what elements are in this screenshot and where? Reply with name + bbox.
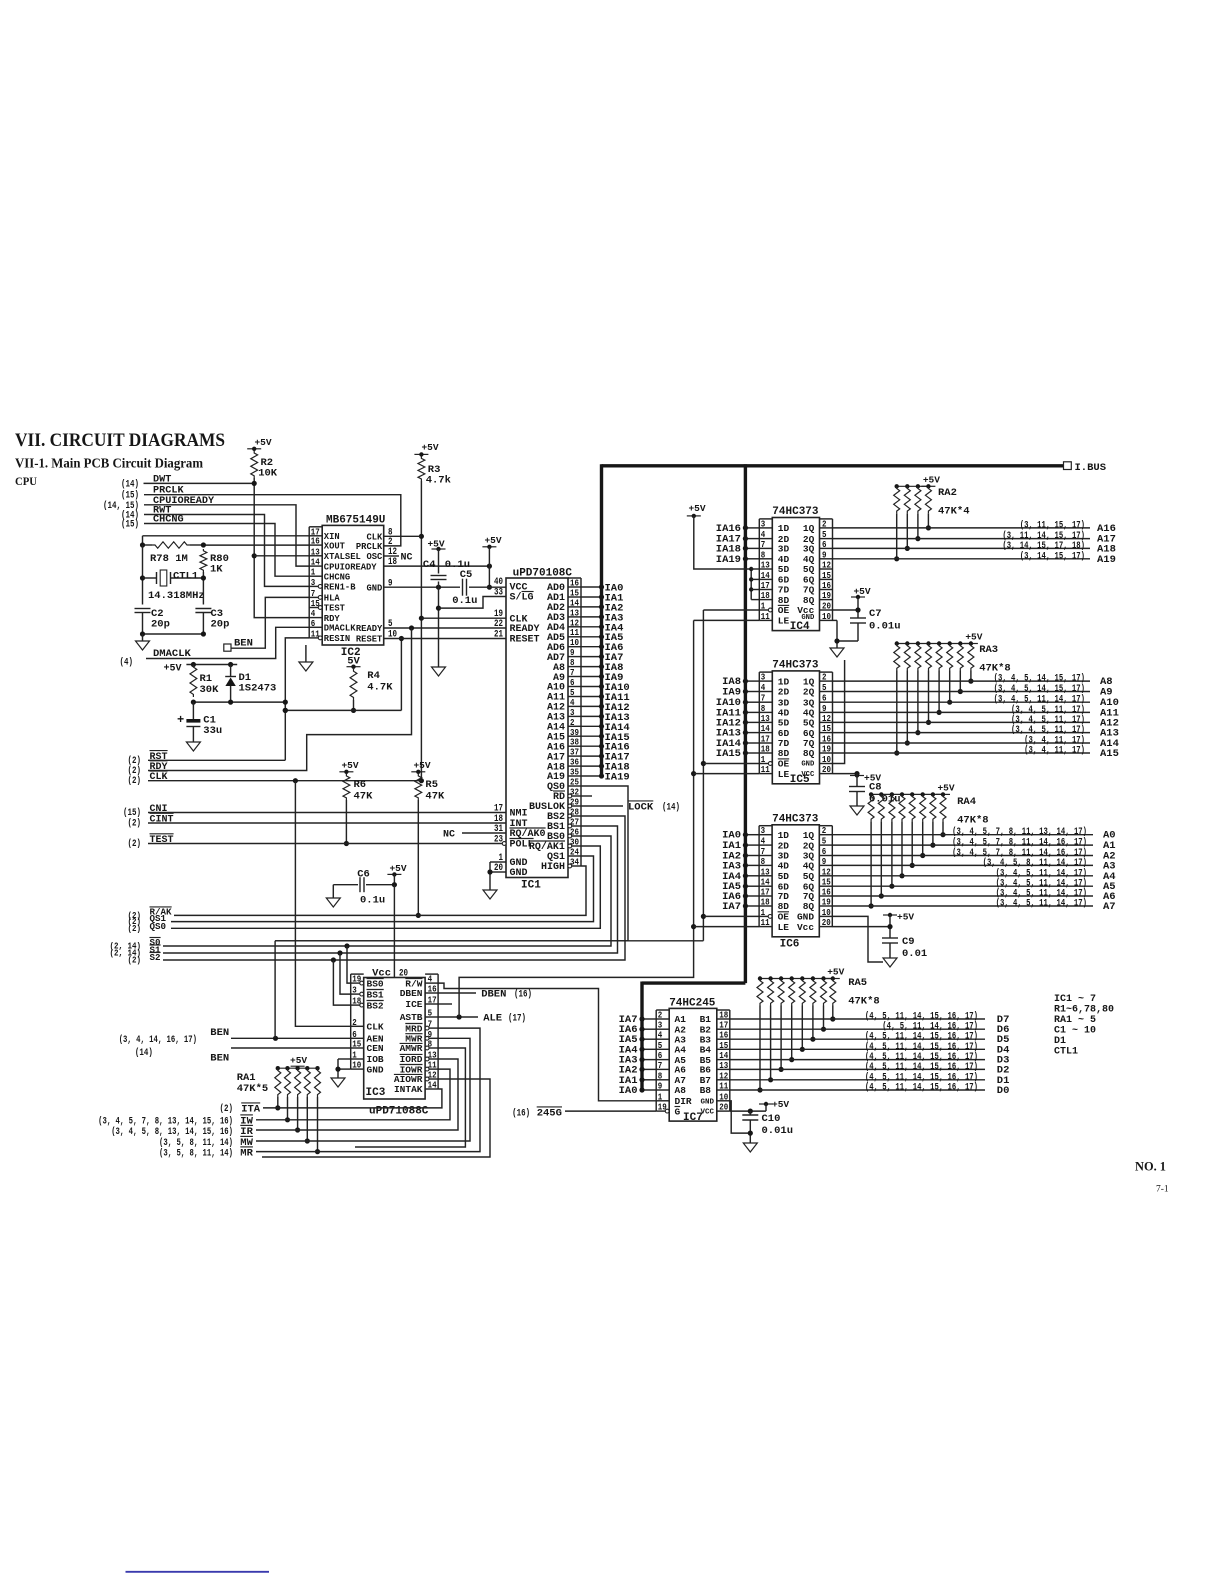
svg-text:20p: 20p <box>211 619 230 631</box>
wire IC3 R/W to IC7 DIR <box>438 983 656 1101</box>
svg-text:+5V: +5V <box>688 503 705 514</box>
resistor R5 47K <box>415 774 445 803</box>
wire S1 branch to IC3 BS1 <box>337 950 350 994</box>
svg-text:13: 13 <box>719 1060 728 1071</box>
svg-text:3: 3 <box>761 672 766 683</box>
svg-text:HLA: HLA <box>324 594 341 604</box>
svg-text:17: 17 <box>494 804 503 815</box>
svg-text:21: 21 <box>494 630 503 641</box>
svg-text:2Q: 2Q <box>803 840 815 851</box>
CPU IC1 uPD70108C <box>494 568 581 892</box>
wire IW to IC3 IOWR <box>256 1069 450 1120</box>
svg-text:5: 5 <box>822 836 827 847</box>
svg-text:(3, 5, 8, 11, 14): (3, 5, 8, 11, 14) <box>159 1148 233 1160</box>
svg-text:(14): (14) <box>121 478 139 490</box>
resistor network RA2 47K*4 <box>894 474 970 561</box>
capacitor C10 0.01u <box>730 1099 793 1143</box>
wire IC2 pin12 OSC NC <box>384 553 413 564</box>
svg-text:INTAK: INTAK <box>394 1084 423 1095</box>
svg-text:XOUT: XOUT <box>324 541 346 551</box>
wire IC3 ASTB to ALE and latch LE chain <box>438 927 693 1025</box>
svg-text:C7: C7 <box>869 608 882 620</box>
svg-text:74HC373: 74HC373 <box>772 659 819 671</box>
svg-text:+5V: +5V <box>923 474 940 485</box>
svg-text:C10: C10 <box>762 1113 781 1125</box>
svg-text:6D: 6D <box>778 728 790 739</box>
svg-text:6: 6 <box>311 618 316 629</box>
wire MW to IC3 MWR <box>256 1038 470 1141</box>
svg-text:(17): (17) <box>508 1013 526 1025</box>
ground C10 <box>743 1143 757 1152</box>
wire IC4 5D-8D tie <box>749 567 759 600</box>
svg-text:23: 23 <box>494 835 503 846</box>
svg-text:1D: 1D <box>778 523 790 534</box>
resistor R2 10K <box>251 451 278 480</box>
svg-text:18: 18 <box>761 897 770 908</box>
power +5V for R5 <box>411 771 425 773</box>
svg-text:GND: GND <box>510 868 528 879</box>
svg-text:GND: GND <box>801 761 815 769</box>
svg-text:TEST: TEST <box>324 604 346 614</box>
svg-text:8D: 8D <box>778 748 790 759</box>
wire IR to IC3 IORD <box>256 1059 458 1130</box>
svg-text:3Q: 3Q <box>803 544 815 555</box>
svg-text:READY: READY <box>356 624 383 634</box>
svg-text:0.01u: 0.01u <box>762 1125 794 1137</box>
ground C8 <box>850 806 864 815</box>
wires CPU AD/A pins to bus with IA labels <box>581 583 630 784</box>
svg-text:19: 19 <box>822 744 831 755</box>
wires IC5 outputs A8-A15 <box>832 673 1119 760</box>
svg-text:(2): (2) <box>128 923 142 934</box>
IC3 uPD71088C bus controller <box>351 974 438 1118</box>
svg-text:47K*5: 47K*5 <box>237 1083 269 1095</box>
svg-text:3D: 3D <box>778 544 790 555</box>
wire latch OE chain riser <box>274 941 276 1039</box>
svg-text:A6: A6 <box>675 1065 687 1076</box>
svg-text:2: 2 <box>822 518 827 529</box>
svg-text:IA19: IA19 <box>605 772 630 784</box>
capacitor C6 0.1u <box>333 869 394 907</box>
svg-text:CLK: CLK <box>150 772 168 783</box>
svg-text:4.7k: 4.7k <box>426 475 451 487</box>
wire S2 branch to IC3 BS2 <box>331 957 351 1005</box>
svg-text:IC1: IC1 <box>521 880 541 892</box>
svg-text:A7: A7 <box>1103 901 1116 913</box>
power +5V at C6 <box>387 863 406 887</box>
node ITA label <box>220 1103 261 1116</box>
svg-text:5: 5 <box>428 1008 433 1019</box>
svg-text:12: 12 <box>822 560 831 571</box>
resistor network RA3 47K*8 <box>894 632 1011 756</box>
resistor R4 4.7K <box>350 669 393 700</box>
svg-text:11: 11 <box>719 1081 728 1092</box>
svg-text:C9: C9 <box>902 936 915 948</box>
wire R5 to R/AK row <box>416 800 421 918</box>
wire R4 to reset row <box>285 636 404 713</box>
svg-text:IC1 ~ 7: IC1 ~ 7 <box>1054 994 1096 1005</box>
svg-text:CLK: CLK <box>367 1022 384 1033</box>
svg-text:(4): (4) <box>120 657 134 669</box>
svg-text:9: 9 <box>822 856 827 867</box>
svg-text:15: 15 <box>822 723 831 734</box>
svg-text:LE: LE <box>778 616 790 627</box>
svg-text:A8: A8 <box>675 1085 687 1096</box>
svg-text:RDY: RDY <box>324 614 341 624</box>
svg-text:15: 15 <box>352 1039 361 1050</box>
svg-text:+5V: +5V <box>413 760 430 771</box>
wire crystal left leg <box>140 545 145 605</box>
svg-text:(3, 4, 5, 8, 13, 14, 15, 16): (3, 4, 5, 8, 13, 14, 15, 16) <box>111 1126 233 1138</box>
svg-text:CPU: CPU <box>15 474 37 488</box>
svg-text:LOCK: LOCK <box>628 802 654 814</box>
svg-text:5D: 5D <box>778 564 790 575</box>
svg-text:1Q: 1Q <box>803 676 815 687</box>
svg-text:XTALSEL: XTALSEL <box>324 552 361 562</box>
svg-text:REN1-B: REN1-B <box>324 583 356 593</box>
wire ITA to IC3 INTAK <box>263 1089 442 1108</box>
power +5V for R2 <box>247 448 261 450</box>
svg-text:74HC373: 74HC373 <box>772 506 819 518</box>
capacitor C9 0.01 <box>832 912 927 961</box>
node MW label <box>159 1136 254 1149</box>
power +5V feed IC4 unused inputs <box>687 503 751 569</box>
wire RD stub <box>581 795 592 797</box>
svg-text:4Q: 4Q <box>803 861 815 872</box>
node DMACLK label <box>120 648 192 669</box>
wire IC2 pin18 to +5V rail <box>384 564 492 569</box>
power 5V for R4 <box>347 656 361 669</box>
svg-text:C4: C4 <box>423 559 436 571</box>
svg-text:BS2: BS2 <box>367 1000 384 1011</box>
svg-text:VCC: VCC <box>700 1109 714 1117</box>
svg-text:(16): (16) <box>514 989 532 1001</box>
ground CPU <box>483 890 497 899</box>
svg-text:7: 7 <box>761 539 766 550</box>
svg-text:VII-1. Main PCB Circuit Diagr: VII-1. Main PCB Circuit Diagram <box>15 457 203 472</box>
node BEN label row <box>119 1027 230 1046</box>
svg-text:1Q: 1Q <box>803 830 815 841</box>
wire IC3 DBEN label <box>438 989 532 1001</box>
wire DWT row <box>144 482 255 484</box>
svg-text:(3, 4, 5, 7, 8, 11, 13, 14, 17: (3, 4, 5, 7, 8, 11, 13, 14, 17) <box>952 826 1087 838</box>
bus elbow to IC7 <box>642 981 745 984</box>
svg-text:3: 3 <box>311 577 316 588</box>
svg-text:DMACLK: DMACLK <box>324 624 356 634</box>
svg-text:47K: 47K <box>425 791 445 803</box>
svg-text:(15): (15) <box>123 807 141 819</box>
svg-text:CINT: CINT <box>150 815 174 826</box>
svg-text:(2): (2) <box>220 1103 234 1115</box>
wire BS1 to S1 row <box>163 826 618 953</box>
svg-text:G: G <box>675 1106 681 1117</box>
svg-text:5Q: 5Q <box>803 564 815 575</box>
svg-text:(3, 4, 5, 7, 8, 11, 14, 16, 17: (3, 4, 5, 7, 8, 11, 14, 16, 17) <box>952 837 1087 849</box>
resistor R80 1K <box>200 549 229 576</box>
ground C9 <box>883 958 897 967</box>
svg-text:BEN: BEN <box>210 1027 229 1039</box>
svg-text:LE: LE <box>778 769 790 780</box>
svg-text:(2): (2) <box>128 765 142 777</box>
svg-text:6Q: 6Q <box>803 728 815 739</box>
svg-text:1S2473: 1S2473 <box>239 683 277 695</box>
wire IC2 RESET to CPU RESET <box>384 638 506 640</box>
svg-text:(4, 5, 11, 14, 15, 16, 17): (4, 5, 11, 14, 15, 16, 17) <box>865 1041 978 1053</box>
svg-text:(3, 4, 5, 14, 15, 17): (3, 4, 5, 14, 15, 17) <box>994 673 1085 685</box>
diode D1 1S2473 <box>225 665 276 703</box>
capacitor C1 33u electrolytic <box>177 702 222 742</box>
svg-text:7-1: 7-1 <box>1156 1185 1169 1195</box>
wire IC4 GND pin <box>832 620 839 648</box>
svg-text:+5V: +5V <box>421 442 438 453</box>
svg-text:VII. CIRCUIT DIAGRAMS: VII. CIRCUIT DIAGRAMS <box>15 430 225 451</box>
svg-text:8Q: 8Q <box>803 748 815 759</box>
svg-text:20: 20 <box>822 917 831 928</box>
svg-text:47K*4: 47K*4 <box>938 506 970 518</box>
bus vertical to IC7 <box>640 982 643 1091</box>
svg-text:0.01u: 0.01u <box>869 621 901 633</box>
svg-text:NO. 1: NO. 1 <box>1135 1159 1166 1174</box>
svg-text:S2: S2 <box>150 952 161 963</box>
bus I.BUS top <box>602 462 1107 474</box>
wire READY staircase to RDY label <box>148 628 412 771</box>
wire 245G to IC7 G <box>565 1110 656 1112</box>
svg-text:+: + <box>177 713 184 727</box>
svg-text:19: 19 <box>822 590 831 601</box>
svg-text:(3, 4, 11, 17): (3, 4, 11, 17) <box>1024 745 1085 757</box>
svg-text:31: 31 <box>494 824 503 835</box>
svg-text:18: 18 <box>761 744 770 755</box>
svg-text:(3, 4, 14, 16, 17): (3, 4, 14, 16, 17) <box>119 1034 197 1046</box>
node DWT input label <box>121 474 171 490</box>
svg-text:2: 2 <box>352 1017 357 1028</box>
capacitor C5 0.1u <box>452 569 477 607</box>
svg-text:20: 20 <box>719 1102 728 1113</box>
svg-text:10: 10 <box>352 1060 361 1071</box>
svg-text:B6: B6 <box>700 1065 712 1076</box>
svg-text:HIGH: HIGH <box>541 862 565 873</box>
svg-text:RA3: RA3 <box>979 644 998 656</box>
svg-text:IA15: IA15 <box>716 748 741 760</box>
svg-text:+5V: +5V <box>484 535 501 546</box>
node NC at RQ/AK0 <box>443 830 506 841</box>
svg-text:6: 6 <box>822 539 827 550</box>
svg-text:LG: LG <box>522 593 534 604</box>
svg-text:74HC373: 74HC373 <box>772 813 819 825</box>
wire BEN to IC3 AEN <box>231 1036 351 1041</box>
svg-text:R6: R6 <box>354 779 367 791</box>
svg-text:BS1: BS1 <box>367 989 384 1000</box>
svg-text:14: 14 <box>761 723 770 734</box>
svg-text:(4, 5, 11, 14, 15, 16, 17): (4, 5, 11, 14, 15, 16, 17) <box>865 1011 978 1023</box>
svg-text:10: 10 <box>822 611 831 622</box>
svg-text:ALE: ALE <box>483 1013 502 1025</box>
svg-text:(16): (16) <box>512 1108 530 1120</box>
node BEN-bar label row <box>135 1047 229 1065</box>
wire RST to RESIN net <box>148 638 309 760</box>
IC4 74HC373 latch <box>759 506 832 633</box>
svg-text:5Q: 5Q <box>803 871 815 882</box>
svg-text:CTL1: CTL1 <box>173 571 198 583</box>
wire CHCNG row to IC2 pin1 <box>144 524 309 577</box>
svg-text:R4: R4 <box>367 670 380 682</box>
wires IC7 outputs D7-D0 <box>730 1011 1010 1098</box>
wire BS2 to S2 row <box>163 816 625 960</box>
resistor R6 47K <box>343 774 373 803</box>
wire IC3 IOB GND tie <box>335 1059 350 1078</box>
svg-text:11: 11 <box>761 611 770 622</box>
svg-text:8Q: 8Q <box>803 901 815 912</box>
svg-text:RA2: RA2 <box>938 487 957 499</box>
footer rule <box>126 1571 270 1573</box>
wire IC2 GND9 row with C5 <box>384 585 506 590</box>
svg-text:IA7: IA7 <box>722 901 741 913</box>
resistor R1 30K <box>190 665 219 698</box>
svg-text:+5V: +5V <box>427 539 444 550</box>
svg-text:16: 16 <box>311 536 320 547</box>
svg-text:16: 16 <box>428 984 437 995</box>
wire QS1 pin to QS1 row <box>171 856 594 922</box>
wire XIN row <box>143 536 310 545</box>
svg-text:CEN: CEN <box>367 1043 384 1054</box>
ground IC4 <box>830 648 844 657</box>
wire IC2 READY to CPU READY <box>384 625 506 630</box>
wire CLK branch to IC3 CLK pin <box>295 781 350 1027</box>
wire +5V to IC3 Vcc pin20 <box>372 885 408 980</box>
wire LOCK from BUSLOK <box>581 801 680 814</box>
IC2 MB675149U clock generator <box>309 515 397 660</box>
svg-text:RESET: RESET <box>510 635 540 646</box>
svg-text:ITA: ITA <box>241 1104 261 1116</box>
svg-text:(3, 14, 15, 17, 18): (3, 14, 15, 17, 18) <box>1002 540 1085 552</box>
resistor R78 1M <box>140 542 206 565</box>
svg-text:RA1 ~ 5: RA1 ~ 5 <box>1054 1015 1096 1026</box>
wires IA inputs to IC7 <box>619 1014 657 1097</box>
svg-text:8Q: 8Q <box>803 595 815 606</box>
svg-text:0.01: 0.01 <box>902 948 927 960</box>
node CPUIOREADY input label <box>103 496 215 512</box>
svg-text:(3, 5, 8, 11, 14): (3, 5, 8, 11, 14) <box>159 1137 233 1149</box>
capacitor C7 0.01u <box>832 586 900 641</box>
svg-text:DBEN: DBEN <box>400 988 423 999</box>
svg-text:IC3: IC3 <box>366 1087 386 1099</box>
wire IC2 CLK8 to CLK net <box>384 535 422 537</box>
svg-text:(3, 4, 5, 7, 8, 13, 14, 15, 16: (3, 4, 5, 7, 8, 13, 14, 15, 16) <box>98 1116 233 1128</box>
wire MR to IC3 MRD <box>256 1028 480 1152</box>
svg-text:11: 11 <box>761 917 770 928</box>
wire CPU S/LG tie <box>439 597 507 609</box>
svg-text:30K: 30K <box>200 684 220 696</box>
wires IC4 outputs A16-A19 <box>832 519 1116 565</box>
svg-text:R5: R5 <box>425 779 438 791</box>
svg-text:AMWR: AMWR <box>400 1043 423 1054</box>
svg-text:(2): (2) <box>128 818 142 830</box>
svg-text:LE: LE <box>778 922 790 933</box>
svg-text:D0: D0 <box>997 1085 1010 1097</box>
wire latch LE chain <box>691 620 759 929</box>
svg-text:2Q: 2Q <box>803 687 815 698</box>
svg-text:(3, 4, 5, 11, 14, 17): (3, 4, 5, 11, 14, 17) <box>996 867 1087 879</box>
wire IC3 ICE stub <box>438 1003 452 1005</box>
page titles <box>15 430 225 488</box>
wire IC3 AIOWR stub <box>262 1079 490 1157</box>
svg-text:RESET: RESET <box>356 635 383 645</box>
svg-text:2: 2 <box>822 672 827 683</box>
wire CPU VCC +5V <box>482 535 501 590</box>
svg-text:NC: NC <box>401 553 413 564</box>
svg-text:1D: 1D <box>778 830 790 841</box>
svg-text:+5V: +5V <box>897 912 914 923</box>
wire latch OE chain <box>701 610 759 941</box>
svg-text:+5V: +5V <box>341 760 358 771</box>
svg-text:IC4: IC4 <box>790 621 810 633</box>
svg-text:4: 4 <box>761 836 766 847</box>
svg-text:11: 11 <box>761 764 770 775</box>
IC6 74HC373 latch <box>759 813 832 950</box>
svg-text:(15): (15) <box>121 519 139 531</box>
svg-text:MR: MR <box>240 1148 253 1160</box>
svg-text:CLK: CLK <box>366 533 383 543</box>
wire RWT row to IC2 pin3 <box>144 515 309 587</box>
wire R6 to POLL row <box>344 800 349 846</box>
svg-text:0.1u: 0.1u <box>360 895 385 907</box>
svg-text:TEST: TEST <box>150 835 174 846</box>
svg-text:(2): (2) <box>128 775 142 787</box>
svg-text:(2): (2) <box>128 955 142 966</box>
svg-text:IA0: IA0 <box>619 1085 638 1097</box>
svg-text:OSC: OSC <box>366 552 383 562</box>
wire R2 vertical to IC2 RDY <box>252 478 310 618</box>
svg-text:3: 3 <box>352 985 357 996</box>
svg-text:7: 7 <box>658 1060 663 1071</box>
svg-text:(14): (14) <box>135 1047 153 1059</box>
svg-text:0.1u: 0.1u <box>445 559 470 571</box>
svg-text:(3, 4, 5, 11, 17): (3, 4, 5, 11, 17) <box>1011 714 1085 726</box>
svg-text:22: 22 <box>494 619 503 630</box>
svg-text:CTL1: CTL1 <box>1054 1047 1078 1058</box>
node RWT input label <box>121 506 171 522</box>
wire QS0 pin to OE row <box>275 786 628 941</box>
node IR label <box>111 1125 253 1138</box>
svg-text:1Q: 1Q <box>803 523 815 534</box>
wire BEN to IC2 HLA <box>231 597 309 648</box>
IC7 74HC245 transceiver <box>656 998 730 1125</box>
capacitor C2 20p <box>135 608 170 634</box>
svg-text:A19: A19 <box>1097 554 1116 566</box>
svg-text:CPUIOREADY: CPUIOREADY <box>324 562 378 572</box>
wire IC3 AMWR stub <box>355 1048 465 1147</box>
wire CNI to CPU NMI <box>148 812 506 814</box>
wire IC5 GND pin to ground <box>832 660 844 764</box>
svg-text:(3, 4, 5, 11, 14, 17): (3, 4, 5, 11, 14, 17) <box>996 898 1087 910</box>
ground crystal <box>136 641 150 650</box>
svg-text:14.318MHz: 14.318MHz <box>148 590 205 602</box>
wire OE row to BEN riser <box>275 940 703 942</box>
ground C4 <box>432 667 446 676</box>
svg-text:BS0: BS0 <box>367 978 384 989</box>
svg-text:A15: A15 <box>1100 748 1119 760</box>
svg-text:OE: OE <box>778 605 790 616</box>
IC5 74HC373 latch <box>759 659 832 786</box>
bus vertical at CPU <box>600 464 603 776</box>
wire crystal bottom <box>140 631 206 641</box>
svg-text:+5V: +5V <box>389 863 406 874</box>
svg-text:CHCNG: CHCNG <box>324 572 350 582</box>
svg-text:(2): (2) <box>128 838 142 850</box>
svg-text:20: 20 <box>822 764 831 775</box>
power +5V for R6 <box>339 771 353 773</box>
svg-text:12: 12 <box>822 866 831 877</box>
